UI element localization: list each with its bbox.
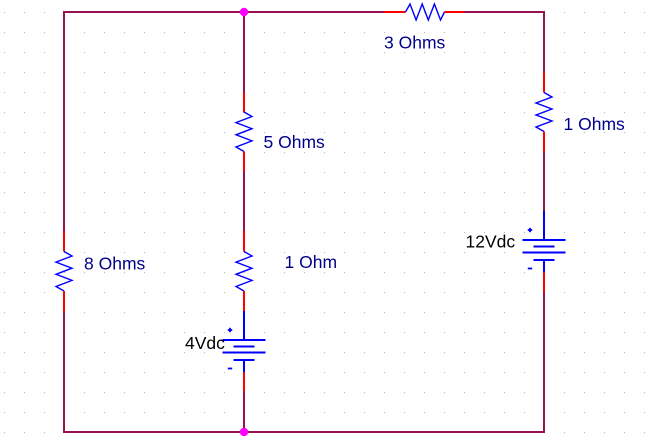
resistor R4 1 Ohms (right rail) <box>536 72 552 152</box>
svg-text:12Vdc: 12Vdc <box>466 232 516 252</box>
svg-text:1 Ohms: 1 Ohms <box>564 114 626 134</box>
wire bottom-left segment <box>63 431 244 433</box>
resistor R1 8 Ohms (left rail) <box>56 231 72 312</box>
plus sign of V2 <box>528 228 532 232</box>
wire bottom-right segment <box>244 431 545 433</box>
battery V1 4Vdc (middle rail) <box>223 311 266 391</box>
minus sign of V2 <box>528 268 532 270</box>
battery V2 12Vdc (right rail) <box>523 211 566 292</box>
wire middle rail mid (5 Ohms to 1 Ohm) <box>243 172 245 231</box>
svg-text:3 Ohms: 3 Ohms <box>384 33 446 53</box>
wire right rail lower (12Vdc to bottom corner) <box>543 292 545 433</box>
resistor R5 3 Ohms (top rail, horizontal) <box>384 4 464 20</box>
wire middle rail bottom (4Vdc to bottom junction) <box>243 391 245 432</box>
wire right rail upper (corner to R4 pin) <box>543 11 545 72</box>
junction node bottom <box>240 428 248 436</box>
junction node top <box>240 8 248 16</box>
svg-text:5 Ohms: 5 Ohms <box>264 132 326 152</box>
wire top-left segment (left rail upper + top rail to junction) <box>64 12 244 231</box>
resistor R3 1 Ohm (middle rail lower) <box>236 231 252 312</box>
wire top-right segment (3 Ohms right pin to corner) <box>464 11 545 13</box>
svg-text:8 Ohms: 8 Ohms <box>84 254 146 274</box>
plus sign of V1 <box>228 328 232 332</box>
svg-text:4Vdc: 4Vdc <box>185 333 225 353</box>
wire top-middle segment (junction to 3 Ohms left pin) <box>244 11 384 13</box>
wire left rail lower (8 Ohms to bottom corner) <box>63 312 65 433</box>
minus sign of V1 <box>228 368 232 370</box>
svg-text:1 Ohm: 1 Ohm <box>285 252 338 272</box>
wire middle rail top (junction to 5 Ohms) <box>243 12 245 92</box>
wire right rail middle (R4 to 12Vdc) <box>543 152 545 212</box>
resistor R2 5 Ohms (middle rail upper) <box>236 92 252 172</box>
